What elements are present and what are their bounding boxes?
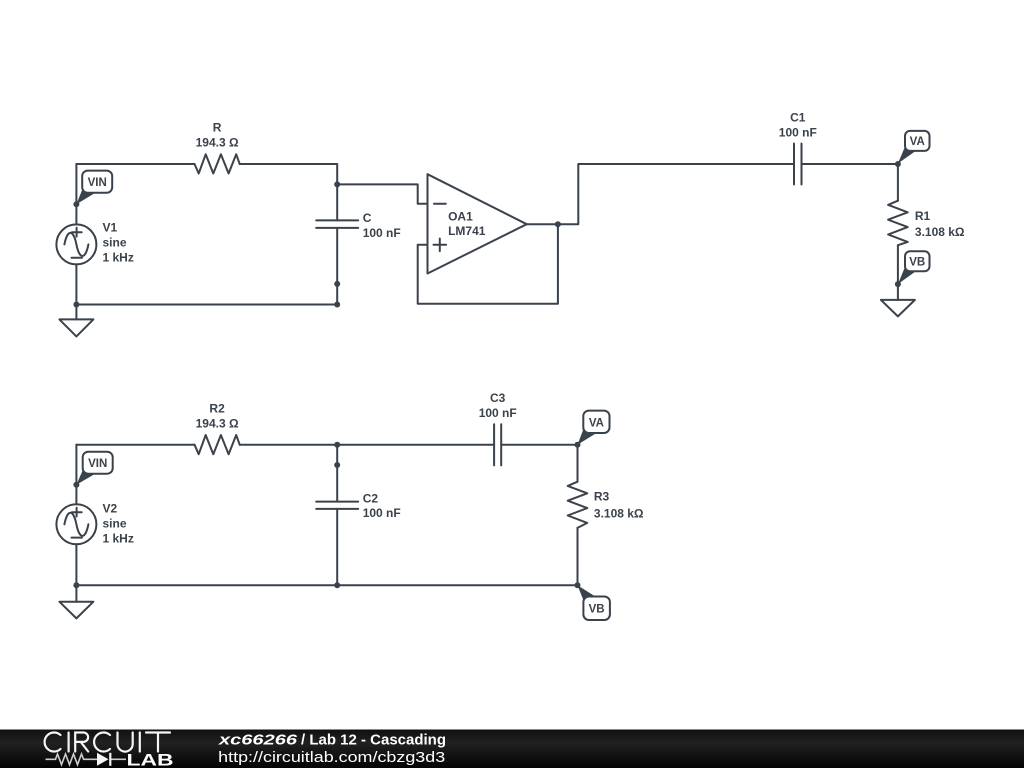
V2 minus sign bbox=[72, 537, 83, 539]
node dot C2 top junction bbox=[334, 442, 340, 448]
wire R2 to C3 left plate bbox=[240, 444, 494, 446]
node dot V1 bottom junction bbox=[73, 302, 79, 308]
wire R1 bottom lead bbox=[897, 245, 899, 284]
svg-text:sine: sine bbox=[103, 236, 127, 250]
flag VB (top circuit) bbox=[898, 251, 930, 284]
svg-text:R3: R3 bbox=[594, 489, 610, 503]
node dot op-amp output bbox=[555, 221, 561, 227]
svg-text:VIN: VIN bbox=[88, 458, 107, 470]
wire V1 top stem bbox=[75, 164, 77, 224]
node dot VB1 bbox=[895, 281, 901, 287]
node dot VIN1 bbox=[73, 201, 79, 207]
node dot VA1 bbox=[895, 161, 901, 167]
wire V1 bottom lead bbox=[75, 264, 77, 304]
op-amp OA1 triangle bbox=[428, 174, 527, 273]
V1 source circle bbox=[56, 224, 96, 264]
wire R3 bottom lead bbox=[577, 528, 579, 585]
svg-text:R1: R1 bbox=[915, 209, 931, 223]
svg-text:C2: C2 bbox=[363, 491, 379, 505]
svg-text:C: C bbox=[363, 211, 372, 225]
wire R3 top lead bbox=[577, 445, 579, 482]
wire from R to branch node at C bbox=[240, 164, 338, 184]
flag VIN (bottom circuit) bbox=[76, 452, 112, 485]
wire V2 top stem bbox=[75, 445, 77, 505]
V1 minus sign bbox=[72, 257, 83, 259]
node dot VIN2 bbox=[73, 482, 79, 488]
svg-text:VA: VA bbox=[589, 417, 604, 429]
capacitor C2 plates bbox=[316, 502, 358, 509]
V2 sine wave bbox=[64, 513, 88, 536]
svg-text:1 kHz: 1 kHz bbox=[103, 251, 134, 265]
wire bottom circuit: VIN corner to R2 bbox=[76, 444, 194, 446]
wire C3 right plate to VA node bbox=[501, 444, 577, 446]
wire top-left horizontal from VIN corner to R bbox=[76, 163, 194, 165]
wire bottom rail of second circuit bbox=[76, 584, 577, 586]
node dot C2 bottom rail junction bbox=[334, 582, 340, 588]
wire ground stem under V1 bbox=[75, 305, 77, 320]
svg-text:194.3 Ω: 194.3 Ω bbox=[196, 416, 239, 430]
wire branch node to op-amp minus input bbox=[337, 184, 427, 203]
capacitor C plates bbox=[316, 220, 358, 228]
svg-text:100 nF: 100 nF bbox=[363, 506, 401, 520]
wire capacitor C2 top lead bbox=[336, 445, 338, 502]
wire ground stem under R1 bbox=[897, 284, 899, 300]
wire C1 to VA node bbox=[802, 163, 898, 165]
resistor R3 zigzag bbox=[568, 482, 588, 528]
op-amp plus sign bbox=[434, 239, 447, 252]
V1 plus sign bbox=[72, 228, 82, 237]
flag VIN (top circuit) bbox=[76, 171, 112, 205]
svg-text:C3: C3 bbox=[490, 391, 506, 405]
node dot C bottom terminal bbox=[334, 281, 340, 287]
svg-text:VB: VB bbox=[589, 604, 605, 616]
svg-text:LM741: LM741 bbox=[448, 224, 486, 238]
svg-text:100 nF: 100 nF bbox=[363, 226, 401, 240]
node dot VA2 bbox=[575, 442, 581, 448]
svg-text:VIN: VIN bbox=[88, 177, 107, 189]
flag VB (bottom circuit) bbox=[578, 585, 610, 620]
svg-text:/ Lab 12 - Cascading: / Lab 12 - Cascading bbox=[301, 733, 446, 749]
capacitor C3 plates bbox=[494, 424, 501, 465]
node dot C2 top terminal bbox=[334, 462, 340, 468]
CircuitLab logo resistor-diode glyph bbox=[46, 754, 127, 765]
svg-text:100 nF: 100 nF bbox=[779, 126, 817, 140]
svg-text:C1: C1 bbox=[790, 111, 806, 125]
resistor R2 zigzag bbox=[195, 435, 240, 454]
wire op-amp output to C1 bbox=[527, 164, 794, 224]
wire ground stem under V2 bbox=[75, 585, 77, 601]
CircuitLab logo wordmark CIRCUIT bbox=[45, 733, 170, 752]
flag VA (top circuit) bbox=[898, 131, 930, 164]
node dot C bottom rail junction bbox=[334, 302, 340, 308]
ground under V2 bbox=[59, 602, 93, 619]
wire capacitor C top lead bbox=[336, 184, 338, 220]
flag VA (bottom circuit) bbox=[578, 411, 610, 445]
CircuitLab logo diode symbol bbox=[97, 753, 109, 766]
svg-text:VA: VA bbox=[910, 136, 925, 148]
svg-text:V1: V1 bbox=[103, 221, 118, 235]
svg-text:1 kHz: 1 kHz bbox=[103, 532, 134, 546]
svg-text:194.3 Ω: 194.3 Ω bbox=[196, 136, 239, 150]
wire bottom rail of first RC stage bbox=[76, 304, 337, 306]
V2 source circle bbox=[56, 504, 96, 544]
wire capacitor C bottom lead bbox=[336, 228, 338, 305]
svg-text:R: R bbox=[213, 121, 222, 135]
wire capacitor C2 bottom lead bbox=[336, 509, 338, 585]
op-amp minus sign bbox=[434, 203, 446, 205]
svg-text:LAB: LAB bbox=[127, 750, 174, 768]
V1 sine wave bbox=[64, 233, 88, 256]
node dot V2 bottom junction bbox=[73, 582, 79, 588]
capacitor C1 plates bbox=[794, 144, 802, 185]
wire op-amp plus input feedback loop bbox=[418, 224, 558, 304]
resistor R zigzag bbox=[195, 154, 240, 173]
svg-text:3.108 kΩ: 3.108 kΩ bbox=[915, 225, 965, 239]
svg-text:R2: R2 bbox=[209, 402, 225, 416]
resistor R1 zigzag bbox=[888, 201, 908, 246]
footer bar bbox=[0, 730, 1024, 768]
svg-text:xc66266: xc66266 bbox=[218, 733, 299, 749]
svg-text:100 nF: 100 nF bbox=[479, 406, 517, 420]
svg-text:VB: VB bbox=[909, 257, 925, 269]
svg-text:3.108 kΩ: 3.108 kΩ bbox=[594, 507, 644, 521]
ground under V1 bbox=[59, 319, 93, 336]
svg-text:http://circuitlab.com/cbzg3d3: http://circuitlab.com/cbzg3d3 bbox=[218, 750, 445, 766]
node dot VB2 bbox=[575, 582, 581, 588]
ground under R1 bbox=[881, 300, 915, 317]
svg-text:sine: sine bbox=[103, 517, 127, 531]
svg-text:V2: V2 bbox=[103, 502, 118, 516]
wire R1 top lead bbox=[897, 164, 899, 201]
node dot C top junction bbox=[334, 181, 340, 187]
V2 plus sign bbox=[72, 508, 82, 517]
svg-text:OA1: OA1 bbox=[448, 209, 473, 223]
wire V2 bottom lead bbox=[75, 544, 77, 585]
